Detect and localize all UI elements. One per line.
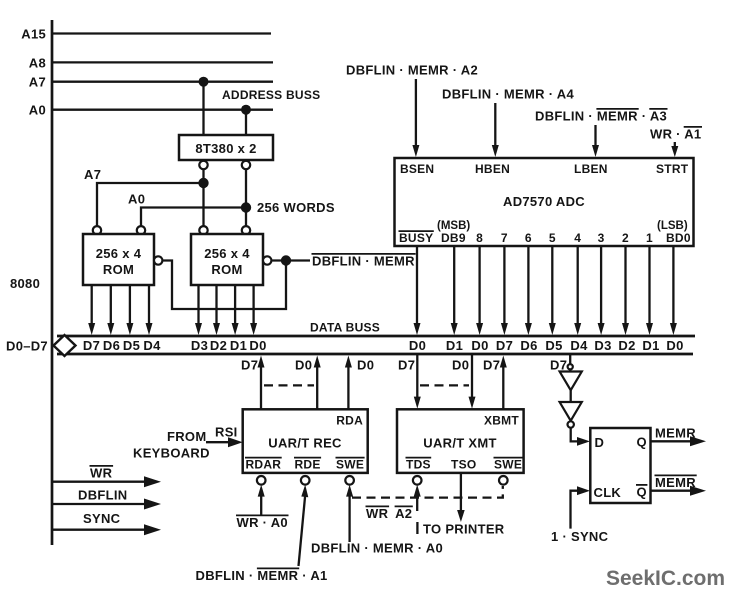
svg-text:D1: D1 [446, 338, 463, 353]
svg-text:DB9: DB9 [441, 231, 466, 245]
inverter A [560, 372, 582, 391]
svg-text:D6: D6 [520, 338, 537, 353]
data bus bottom line [57, 353, 693, 356]
svg-text:Q: Q [637, 485, 647, 500]
wire DBFLIN MEMRbar A3bar to LBEN [592, 125, 599, 157]
data bus top line [57, 335, 695, 338]
signal WR from 8080 [52, 476, 161, 487]
svg-text:8T380 x 2: 8T380 x 2 [195, 141, 256, 156]
wire XBMT output to bus [500, 356, 507, 410]
inverter B [560, 402, 582, 421]
flip-flop U7 box [590, 428, 650, 503]
svg-text:SeekIC.com: SeekIC.com [606, 567, 725, 590]
wire ROM2 output D1 [232, 285, 239, 335]
bus bit labels left group [83, 338, 161, 353]
wire chip-select net ROM1 to junction [162, 261, 286, 310]
buffer U1 8T380 x 2 [179, 135, 273, 160]
svg-text:RDE: RDE [295, 458, 321, 472]
wire ROM2 output D3 [195, 285, 202, 335]
wire Qbar output MEMRbar [651, 486, 707, 496]
wire DBFLIN MEMR A1 to RDE [299, 485, 309, 566]
svg-text:256 x 4: 256 x 4 [96, 246, 142, 261]
svg-text:D0–D7: D0–D7 [6, 339, 48, 354]
wire ROM2 output D0 [250, 285, 257, 335]
svg-text:DBFLIN · MEMR · A3: DBFLIN · MEMR · A3 [535, 109, 667, 124]
U6 SWE bubble [499, 476, 508, 485]
svg-text:KEYBOARD: KEYBOARD [133, 446, 210, 461]
wires ADC data pins to data bus [414, 246, 421, 335]
junction A0 branch [241, 202, 251, 212]
wire 8T380 left output to ROM2 input [202, 169, 204, 227]
wire DBFLIN MEMR A4 to HBEN [492, 103, 499, 157]
ROM U3 input bubble A0 [242, 226, 250, 234]
svg-text:D0: D0 [249, 338, 266, 353]
svg-text:RDAR: RDAR [246, 458, 282, 472]
svg-text:WR · A0: WR · A0 [237, 515, 288, 530]
wire ROM1 output D4 [146, 285, 153, 335]
svg-text:D0: D0 [471, 338, 488, 353]
svg-text:D7: D7 [398, 358, 415, 373]
ROM U3 256 x 4 ROM [191, 234, 263, 285]
svg-text:DATA BUSS: DATA BUSS [310, 321, 380, 335]
svg-text:3: 3 [598, 231, 605, 245]
svg-text:UAR/T XMT: UAR/T XMT [423, 436, 496, 451]
wire REC D0 to bus [314, 356, 321, 410]
svg-text:A15: A15 [21, 27, 46, 42]
svg-text:7: 7 [501, 231, 508, 245]
svg-text:2: 2 [622, 231, 629, 245]
wire REC D7 to bus [258, 356, 265, 410]
svg-text:BSEN: BSEN [400, 162, 434, 176]
svg-text:A0: A0 [128, 192, 145, 207]
svg-text:SWE: SWE [494, 458, 522, 472]
svg-text:CLK: CLK [594, 485, 622, 500]
ROM U2 256 x 4 ROM [83, 234, 154, 285]
svg-text:D4: D4 [570, 338, 588, 353]
svg-text:D7: D7 [496, 338, 513, 353]
svg-text:D7: D7 [83, 338, 100, 353]
signal SYNC from 8080 [52, 524, 161, 535]
svg-text:D4: D4 [143, 338, 161, 353]
data bus diamond connector [54, 335, 76, 356]
wire TDS stub lower [416, 522, 418, 534]
svg-text:D0: D0 [295, 358, 312, 373]
wire WR A2 to TDS [414, 485, 421, 511]
svg-text:BUSY: BUSY [399, 231, 433, 245]
svg-text:A7: A7 [84, 167, 101, 182]
junction A7 branch [198, 178, 208, 188]
8T380 right output bubble [242, 161, 250, 169]
wire A8 [52, 61, 273, 63]
overline bars for negated signals [90, 109, 703, 569]
svg-text:D0: D0 [666, 338, 683, 353]
svg-text:D2: D2 [618, 338, 635, 353]
ROM U3 chip-select bubble [263, 256, 271, 264]
U5 RDE bubble [301, 476, 310, 485]
wire WR A0 to RDAR [258, 485, 265, 515]
wire A15 [52, 32, 271, 34]
UART U6 transmitter box [397, 409, 524, 473]
8080 bus vertical line [51, 20, 54, 545]
svg-text:A8: A8 [29, 55, 46, 70]
wire A0 [52, 109, 273, 111]
svg-text:DBFLIN · MEMR · A1: DBFLIN · MEMR · A1 [196, 568, 328, 583]
svg-text:A7: A7 [29, 75, 46, 90]
svg-text:WR: WR [90, 466, 113, 481]
wire A7 junction to 8T380 [202, 82, 204, 135]
bus bit labels ADC group [409, 338, 684, 353]
wire ROM2 CS to junction [271, 259, 310, 261]
svg-text:TSO: TSO [451, 458, 476, 472]
svg-text:D0: D0 [452, 358, 469, 373]
svg-text:D7: D7 [483, 358, 500, 373]
U5 SWE bubble [345, 476, 354, 485]
dashed wire SWE net REC to XMT [352, 486, 503, 498]
UART U5 receiver box [243, 409, 368, 473]
svg-text:1: 1 [646, 231, 653, 245]
inverter B output bubble [568, 421, 574, 427]
svg-text:D6: D6 [103, 338, 120, 353]
inverter input bubble [568, 364, 573, 369]
wire bus to XMT D7 [414, 354, 421, 409]
wire inverter A to inverter B [570, 390, 572, 402]
svg-text:D7: D7 [241, 358, 258, 373]
svg-text:AD7570 ADC: AD7570 ADC [503, 194, 585, 209]
ROM U2 input bubble A7 [93, 226, 101, 234]
svg-text:D5: D5 [123, 338, 140, 353]
wire Q output MEMR [651, 436, 707, 446]
8T380 left output bubble [199, 161, 207, 169]
dashed range line REC D7-D0 [264, 384, 314, 386]
svg-text:MEMR: MEMR [655, 475, 696, 490]
svg-text:D1: D1 [230, 338, 247, 353]
dashed range line XMT D7-D0 [420, 384, 469, 386]
svg-text:D: D [595, 435, 605, 450]
svg-text:TDS: TDS [406, 458, 431, 472]
U6 TDS bubble [413, 476, 422, 485]
svg-text:D5: D5 [545, 338, 562, 353]
wire ROM1 output D6 [107, 285, 114, 335]
svg-text:STRT: STRT [656, 162, 689, 176]
wire 8T380 right output to ROM2 input [245, 169, 247, 227]
svg-text:SWE: SWE [336, 458, 364, 472]
wire WR A1bar to STRT [671, 142, 678, 157]
svg-text:LBEN: LBEN [574, 162, 608, 176]
svg-text:BD0: BD0 [666, 231, 691, 245]
svg-text:XBMT: XBMT [484, 414, 519, 428]
svg-text:RDA: RDA [336, 414, 363, 428]
svg-text:HBEN: HBEN [475, 162, 510, 176]
svg-text:D0: D0 [357, 358, 374, 373]
wire keyboard RSI into REC [206, 437, 243, 447]
U5 RDAR bubble [257, 476, 266, 485]
signal DBFLIN from 8080 [52, 499, 161, 510]
ROM U3 input bubble A7 [199, 226, 207, 234]
svg-text:ROM: ROM [211, 262, 242, 277]
ROM U2 input bubble A0 [137, 226, 145, 234]
wire ROM1 output D5 [126, 285, 133, 335]
svg-text:D0: D0 [409, 338, 426, 353]
svg-text:SYNC: SYNC [83, 511, 121, 526]
junction on A0 line [241, 105, 251, 115]
svg-text:RSI: RSI [215, 425, 238, 440]
wire RDA output to bus [345, 356, 352, 410]
svg-text:DBFLIN · MEMR · A2: DBFLIN · MEMR · A2 [346, 63, 478, 78]
svg-text:FROM: FROM [167, 429, 206, 444]
svg-text:6: 6 [525, 231, 532, 245]
svg-text:UAR/T REC: UAR/T REC [268, 436, 342, 451]
svg-text:8080: 8080 [10, 276, 40, 291]
svg-text:1 · SYNC: 1 · SYNC [551, 529, 609, 544]
wire 1 SYNC to CLK [571, 486, 591, 528]
svg-text:8: 8 [476, 231, 483, 245]
wire inverter B to flip-flop D [571, 428, 590, 446]
svg-text:D1: D1 [642, 338, 659, 353]
svg-text:DBFLIN · MEMR · A0: DBFLIN · MEMR · A0 [311, 541, 443, 556]
wire DBFLIN MEMR A0 to SWE [346, 485, 353, 542]
wire ROM1 output D7 [88, 285, 95, 335]
junction on A7 line [199, 77, 209, 87]
svg-text:D7: D7 [550, 358, 567, 373]
svg-text:D3: D3 [594, 338, 611, 353]
svg-text:D3: D3 [191, 338, 208, 353]
wire DBFLIN MEMR A2 to BSEN [412, 79, 419, 157]
svg-text:256 WORDS: 256 WORDS [257, 200, 335, 215]
svg-text:5: 5 [549, 231, 556, 245]
svg-text:A0: A0 [29, 103, 46, 118]
svg-text:ROM: ROM [103, 262, 134, 277]
svg-text:DBFLIN: DBFLIN [78, 488, 127, 503]
svg-text:Q: Q [637, 435, 647, 450]
wire A0 junction to 8T380 [245, 110, 247, 135]
svg-text:4: 4 [574, 231, 581, 245]
svg-text:WR A2: WR A2 [366, 506, 412, 521]
svg-text:DBFLIN · MEMR: DBFLIN · MEMR [312, 254, 415, 269]
svg-text:256 x 4: 256 x 4 [204, 246, 250, 261]
bus bit labels ROM2 group [191, 338, 267, 353]
wire TSO to printer [457, 473, 465, 522]
wire A7 branch to ROM1 input [97, 183, 204, 227]
svg-text:D2: D2 [210, 338, 227, 353]
wire bus to XMT D0 [469, 354, 476, 409]
ROM U2 chip-select bubble [154, 256, 162, 264]
wire A0 branch to ROM1 input [141, 208, 246, 228]
svg-text:MEMR: MEMR [655, 426, 696, 441]
svg-text:DBFLIN · MEMR · A4: DBFLIN · MEMR · A4 [442, 87, 574, 102]
ADC U4 AD7570 [395, 158, 694, 246]
svg-text:TO PRINTER: TO PRINTER [423, 522, 505, 537]
svg-text:WR · A1: WR · A1 [650, 127, 701, 142]
wire bus to inverter chain [569, 354, 571, 372]
svg-text:ADDRESS BUSS: ADDRESS BUSS [222, 88, 320, 102]
wire ROM2 output D2 [213, 285, 220, 335]
wire A7 [52, 81, 273, 83]
junction chip-select [281, 255, 291, 265]
